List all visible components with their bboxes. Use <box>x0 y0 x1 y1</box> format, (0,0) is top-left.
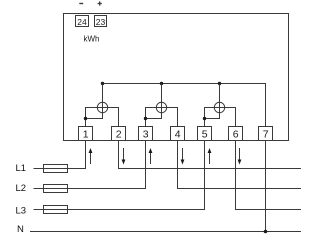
measuring element M2 <box>146 84 178 127</box>
fuse F1 <box>44 165 68 173</box>
node bus-M3 <box>218 82 221 85</box>
terminal 7 <box>259 127 273 141</box>
fuse F2 <box>44 185 68 193</box>
node bus-M1 <box>101 82 104 85</box>
svg-text:23: 23 <box>96 17 106 27</box>
svg-text:2: 2 <box>116 129 122 141</box>
svg-text:1: 1 <box>83 129 89 141</box>
svg-text:7: 7 <box>263 129 269 141</box>
terminal 24 <box>76 16 89 28</box>
plus polarity mark <box>98 1 102 5</box>
node bus-M2 <box>160 82 163 85</box>
svg-text:kWh: kWh <box>84 35 100 44</box>
arrow down at terminal 2 <box>122 148 126 165</box>
arrow down at terminal 4 <box>181 148 185 165</box>
measuring element M3 <box>205 84 236 127</box>
wire L3 feed to terminal 5 <box>34 141 205 210</box>
kWh meter outline <box>64 14 289 141</box>
svg-text:24: 24 <box>77 17 87 27</box>
node voltage tap 2 <box>144 117 147 120</box>
terminal 5 <box>198 127 212 141</box>
svg-text:L2: L2 <box>16 183 27 194</box>
node voltage tap 3 <box>203 117 206 120</box>
fuse F3 <box>44 206 68 214</box>
wire terminal 4 to L2 load <box>178 141 302 189</box>
arrow down at terminal 6 <box>238 148 242 165</box>
wire terminal 7 to neutral <box>265 141 267 232</box>
neutral line N <box>30 231 301 233</box>
node voltage tap 1 <box>84 117 87 120</box>
svg-text:L3: L3 <box>16 206 27 217</box>
svg-text:6: 6 <box>233 129 239 141</box>
wire L2 feed to terminal 3 <box>34 141 146 189</box>
terminal 3 <box>139 127 153 141</box>
svg-text:5: 5 <box>202 129 208 141</box>
terminal 2 <box>112 127 126 141</box>
terminal 1 <box>79 127 93 141</box>
terminal 4 <box>171 127 185 141</box>
arrow up at terminal 3 <box>149 148 153 164</box>
wire terminal 2 to L1 load <box>119 141 302 169</box>
arrow up at terminal 5 <box>208 148 212 164</box>
voltage bus wire <box>103 84 266 127</box>
svg-text:L1: L1 <box>16 163 27 174</box>
measuring element M1 <box>86 84 119 127</box>
minus polarity mark <box>79 3 83 5</box>
terminal 6 <box>229 127 243 141</box>
terminal 23 <box>95 16 107 28</box>
svg-text:3: 3 <box>143 129 149 141</box>
wire terminal 6 to L3 load <box>236 141 302 210</box>
wire L1 feed to terminal 1 <box>34 141 86 169</box>
arrow up at terminal 1 <box>89 148 93 164</box>
svg-text:N: N <box>17 224 24 235</box>
node N junction <box>264 230 268 234</box>
svg-text:4: 4 <box>175 129 181 141</box>
